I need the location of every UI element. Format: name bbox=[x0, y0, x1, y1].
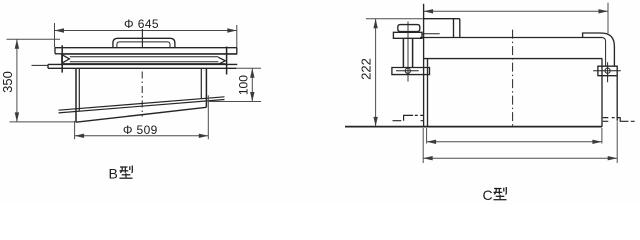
dimension 222 bbox=[366, 19, 424, 126]
V-band clamp lines bbox=[62, 53, 238, 55]
dimension Phi509 arrows bbox=[75, 134, 209, 138]
hook outer bbox=[583, 33, 615, 66]
dimension 350 bbox=[7, 39, 77, 122]
body bottom slant edge bbox=[76, 107, 206, 122]
lid bar bbox=[420, 38, 602, 59]
svg-text:100: 100 bbox=[236, 75, 250, 95]
ground line bbox=[345, 126, 602, 128]
label xing glyph B bbox=[120, 166, 133, 179]
left clamp pin circle bbox=[405, 68, 410, 73]
V-band left notch bbox=[62, 54, 70, 63]
left bolt tick bbox=[61, 45, 63, 72]
top block bbox=[424, 19, 460, 38]
outer bottom dimension bbox=[423, 121, 617, 163]
right bracket outer edge bbox=[616, 76, 618, 121]
mesh line lower bbox=[59, 100, 225, 113]
left clamp cap bbox=[398, 25, 420, 32]
dimension Phi509 bbox=[75, 95, 209, 139]
right stand zigzag bbox=[617, 118, 634, 122]
handle inner bbox=[117, 42, 170, 48]
inner bottom dimension arrows bbox=[427, 140, 602, 144]
dimension Phi645 line bbox=[55, 23, 237, 49]
dimension Phi645 arrows bbox=[55, 28, 237, 32]
V-band right notch bbox=[218, 57, 225, 64]
left clamp bolt center line bbox=[407, 22, 409, 82]
hook inner bbox=[602, 38, 606, 67]
mesh line upper bbox=[59, 97, 225, 110]
top dimension C arrows bbox=[424, 9, 608, 13]
right bolt tick bbox=[226, 47, 228, 75]
body left wall bbox=[75, 68, 77, 122]
left clamp cross line bbox=[396, 70, 419, 72]
svg-text:B: B bbox=[109, 166, 118, 182]
box left wall inner bbox=[427, 59, 429, 127]
right clamp cross lines bbox=[593, 62, 621, 82]
label xing glyph C bbox=[494, 187, 507, 200]
dimension 100 arrows bbox=[250, 68, 254, 101]
left stand zigzag bbox=[393, 115, 414, 120]
block/wall left edge full bbox=[423, 4, 425, 127]
handle outer bbox=[113, 38, 175, 47]
top dimension line C bbox=[424, 3, 608, 34]
plate top right short line bbox=[422, 33, 440, 35]
right clamp block bbox=[598, 66, 617, 76]
box right wall bbox=[601, 59, 603, 127]
inner bottom dimension bbox=[427, 128, 602, 144]
left clamp lower block bbox=[392, 68, 430, 75]
svg-text:C: C bbox=[483, 187, 493, 203]
outer bottom dimension arrows bbox=[423, 156, 617, 160]
dimension 100 bbox=[208, 68, 261, 101]
center line dashed B bbox=[141, 72, 143, 117]
svg-text:Φ 509: Φ 509 bbox=[123, 123, 158, 137]
center line dashed C bbox=[512, 30, 514, 128]
center tick top bbox=[141, 29, 143, 48]
svg-text:350: 350 bbox=[0, 71, 15, 93]
lower flange plate bbox=[48, 64, 237, 68]
dimension 350 arrows bbox=[15, 39, 19, 122]
svg-text:222: 222 bbox=[358, 58, 373, 80]
lid plate bbox=[55, 48, 237, 54]
dimension 222 arrows bbox=[373, 19, 377, 127]
body right wall bbox=[200, 68, 202, 98]
right clamp pin circle bbox=[605, 68, 610, 73]
left clamp plate bbox=[393, 32, 422, 38]
left clamp bolt shaft bbox=[403, 38, 412, 67]
svg-text:Φ 645: Φ 645 bbox=[124, 17, 159, 31]
flange left extension line bbox=[32, 64, 49, 66]
